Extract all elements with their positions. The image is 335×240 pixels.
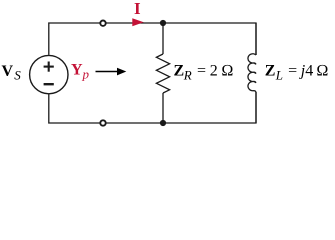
wire: resistor upper lead	[162, 23, 164, 54]
junction node 2 (bottom)	[160, 120, 166, 126]
svg-text:Yp: Yp	[71, 62, 90, 82]
terminal b (open circle, bottom)	[100, 120, 105, 125]
arrow after Yp	[96, 71, 120, 73]
svg-text:ZL=j4Ω: ZL=j4Ω	[265, 63, 329, 83]
voltage source VS circle	[30, 55, 68, 93]
svg-text:VS: VS	[2, 63, 22, 82]
wire: terminal b to source bottom lead (bottom-left corner)	[49, 94, 100, 123]
svg-text:ZR=2Ω: ZR=2Ω	[174, 63, 234, 83]
wire: resistor lower lead	[162, 93, 164, 123]
terminal a (open circle, top)	[100, 21, 105, 26]
inductor ZL coil	[248, 54, 256, 92]
wire: inductor upper lead	[255, 23, 257, 55]
wire: inductor lower lead	[255, 92, 257, 123]
voltage source plus sign	[44, 62, 54, 72]
svg-text:I: I	[134, 0, 141, 18]
wire: inductor bottom to terminal b (bottom-right corner)	[106, 92, 256, 123]
wire: terminal a to inductor branch (top-right corner)	[106, 23, 256, 55]
current arrowhead I (red)	[132, 18, 143, 26]
junction node 1 (top)	[160, 20, 166, 26]
resistor ZR zigzag	[156, 54, 169, 93]
voltage source minus sign	[44, 83, 54, 85]
wire: source top lead to terminal a (top-left corner)	[49, 23, 100, 55]
